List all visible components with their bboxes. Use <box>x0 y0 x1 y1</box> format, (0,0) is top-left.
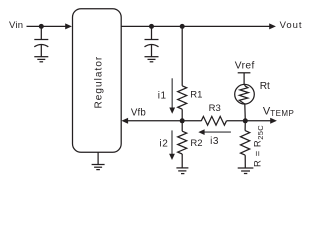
ground R2 <box>176 168 188 174</box>
ground C2 <box>145 57 159 62</box>
ground R4 <box>238 168 254 174</box>
capacitor C1 <box>34 40 48 57</box>
wire output rail Vout <box>121 25 270 27</box>
resistor R4 (R = R25C) <box>241 131 250 156</box>
wire Vtemp out <box>245 120 271 122</box>
arrowhead Vtemp <box>270 118 277 124</box>
wire regulator ground stub <box>97 152 99 164</box>
wire cap C2 stub <box>151 26 153 39</box>
wire R4 bottom <box>244 155 246 168</box>
svg-text:Vref: Vref <box>235 61 255 72</box>
arrowhead i3 <box>198 129 204 135</box>
svg-text:Rt: Rt <box>260 81 270 92</box>
wire Rt bottom <box>244 104 247 121</box>
thermistor Rt circle <box>235 84 255 104</box>
wire Vin to regulator <box>27 25 67 27</box>
junction node C2 <box>149 24 154 29</box>
Vref rail bar <box>238 72 251 74</box>
svg-text:R3: R3 <box>209 103 221 114</box>
wire R1 branch top <box>181 26 183 85</box>
wire Vfb rail <box>124 120 202 122</box>
thermistor Rt zigzag <box>239 85 248 104</box>
svg-text:Regulator: Regulator <box>93 56 104 109</box>
regulator box <box>73 9 122 153</box>
svg-text:Vout: Vout <box>280 20 303 31</box>
arrowhead Vout <box>269 23 276 29</box>
wire rail R3 right <box>227 120 246 122</box>
svg-text:i2: i2 <box>159 139 168 150</box>
svg-text:R = R25C: R = R25C <box>253 125 265 167</box>
svg-text:i3: i3 <box>210 136 219 147</box>
resistor R1 <box>178 86 187 109</box>
svg-text:VTEMP: VTEMP <box>263 106 294 118</box>
svg-text:Vfb: Vfb <box>131 108 146 119</box>
wire cap C1 stub <box>40 26 42 39</box>
arrowhead Vfb into regulator <box>121 118 128 124</box>
wire Vref to Rt <box>243 73 245 85</box>
svg-text:i1: i1 <box>158 91 167 102</box>
svg-text:Vin: Vin <box>9 20 23 31</box>
wire R2 bottom <box>181 154 183 168</box>
ground C1 <box>34 57 48 62</box>
svg-text:R1: R1 <box>190 89 202 100</box>
svg-text:R2: R2 <box>190 138 202 149</box>
junction node C1 <box>39 24 44 29</box>
resistor R2 <box>178 131 187 154</box>
capacitor C2 <box>145 40 159 57</box>
wire R4 top <box>244 121 246 131</box>
junction node R1 top <box>180 24 185 29</box>
wire R2 top <box>181 121 183 131</box>
current arrow shafts i1 i2 i3 <box>172 78 231 154</box>
junction node Vfb <box>180 118 185 123</box>
arrowhead i1 <box>169 108 175 114</box>
arrowhead i2 <box>169 154 175 160</box>
resistor R3 <box>201 116 226 125</box>
wire R1 bottom <box>181 109 183 121</box>
junction node Vtemp <box>243 118 248 123</box>
ground regulator <box>92 165 105 170</box>
arrowhead Vin into regulator <box>65 23 72 29</box>
